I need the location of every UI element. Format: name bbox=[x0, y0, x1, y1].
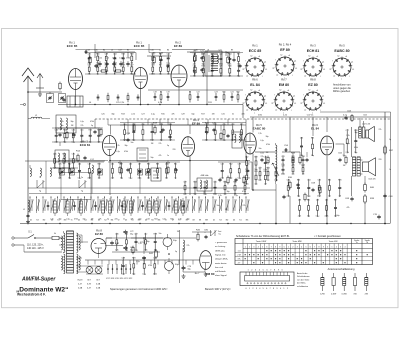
resistor R7 bbox=[194, 51, 198, 63]
wire U5 top bbox=[252, 117, 254, 133]
svg-text:C64: C64 bbox=[113, 54, 116, 56]
svg-text:M8: M8 bbox=[205, 220, 208, 222]
capacitor C24 bbox=[126, 133, 131, 142]
svg-text:5: 5 bbox=[262, 247, 263, 249]
resistor R21 bbox=[304, 193, 306, 202]
svg-text:C36: C36 bbox=[55, 129, 58, 131]
svg-text:7: 7 bbox=[314, 247, 315, 249]
wire speaker leads bbox=[360, 160, 362, 174]
svg-text:R52: R52 bbox=[96, 64, 99, 66]
svg-text:50p: 50p bbox=[267, 180, 270, 182]
svg-text:30p: 30p bbox=[130, 73, 133, 75]
svg-text:C29: C29 bbox=[181, 114, 184, 116]
svg-text:Rö 2, Rö 4: Rö 2, Rö 4 bbox=[279, 42, 292, 46]
svg-text:R58: R58 bbox=[130, 54, 133, 56]
svg-text:C41: C41 bbox=[151, 54, 154, 56]
wire crossers bbox=[108, 119, 228, 125]
capacitor C33 bbox=[282, 195, 285, 199]
resistor R10 bbox=[66, 131, 68, 140]
coil box L3 filter bbox=[56, 115, 76, 133]
switch S10 contact bbox=[84, 196, 88, 222]
wire bus y117 right bbox=[250, 116, 390, 118]
svg-text:30p: 30p bbox=[71, 121, 74, 123]
svg-text:5p: 5p bbox=[175, 251, 177, 253]
svg-text:EF 89: EF 89 bbox=[174, 44, 182, 48]
capacitor C2 trimmer bbox=[59, 94, 66, 103]
switch S5 contact bbox=[51, 196, 55, 222]
label row y114 bbox=[101, 114, 244, 116]
resistor R26 top right bbox=[384, 145, 394, 155]
wire EZ80 to caps bbox=[105, 238, 125, 246]
wire U4 top bbox=[189, 125, 191, 134]
svg-text:27k: 27k bbox=[81, 125, 84, 127]
tube pinout EZ 80 bbox=[301, 77, 326, 114]
svg-text:M5: M5 bbox=[246, 220, 249, 222]
capacitor C72b bbox=[123, 246, 133, 252]
svg-text:EL 84: EL 84 bbox=[311, 127, 319, 131]
svg-text:k2: k2 bbox=[280, 90, 282, 92]
svg-text:2,2k: 2,2k bbox=[258, 180, 261, 182]
svg-text:C14: C14 bbox=[307, 180, 310, 182]
svg-text:a1: a1 bbox=[316, 56, 318, 58]
junction node bbox=[27, 91, 29, 93]
svg-text:220: 220 bbox=[211, 75, 214, 77]
coil box L2 below U1a bbox=[67, 96, 83, 107]
svg-text:C55: C55 bbox=[151, 64, 154, 66]
power resistor RA4 bbox=[353, 273, 357, 296]
component cluster EABC bbox=[258, 167, 277, 182]
svg-text:C42: C42 bbox=[165, 163, 168, 165]
svg-text:C72: C72 bbox=[72, 153, 75, 155]
svg-text:C12: C12 bbox=[144, 234, 147, 236]
svg-text:C31: C31 bbox=[221, 114, 224, 116]
wire AF couplings bbox=[255, 152, 307, 224]
svg-text:Rö 5: Rö 5 bbox=[339, 43, 345, 47]
capacitor C32 bbox=[296, 183, 299, 187]
svg-text:10n: 10n bbox=[328, 196, 331, 198]
svg-text:R27: R27 bbox=[120, 163, 123, 165]
wire U3 cathode drop bbox=[109, 155, 111, 195]
dial lamp LP1 bbox=[86, 267, 93, 274]
component cluster OSC2 bbox=[218, 162, 252, 180]
svg-text:M2: M2 bbox=[43, 220, 46, 222]
svg-text:Tg: Tg bbox=[39, 191, 41, 193]
wire top verticals bbox=[95, 44, 179, 60]
wire bus B+ y104.5 bbox=[58, 104, 243, 106]
wire U6 to transformer bbox=[336, 144, 353, 157]
resistor R14 bbox=[153, 123, 158, 135]
svg-text:C27: C27 bbox=[141, 114, 144, 116]
svg-text:30p: 30p bbox=[125, 145, 128, 147]
wire value label bbox=[208, 102, 213, 104]
svg-text:10n: 10n bbox=[89, 142, 92, 144]
label scatter IF mid bbox=[116, 142, 175, 159]
capacitor C72a bbox=[123, 230, 133, 236]
svg-text:C28: C28 bbox=[105, 54, 108, 56]
resistor R11 bbox=[76, 151, 81, 163]
capacitor C53 bbox=[126, 168, 129, 172]
svg-text:2,2k: 2,2k bbox=[121, 274, 124, 276]
svg-text:C69: C69 bbox=[203, 181, 206, 183]
wire antenna to C1 bbox=[28, 92, 62, 94]
svg-text:R71: R71 bbox=[291, 156, 294, 158]
svg-text:R57: R57 bbox=[68, 163, 71, 165]
inductor L22 AM coil bbox=[79, 198, 82, 216]
svg-text:0,1μ: 0,1μ bbox=[260, 140, 264, 142]
svg-text:2: 2 bbox=[336, 247, 337, 249]
resistor R6 bbox=[153, 53, 157, 65]
fuse F1 bbox=[52, 233, 62, 240]
svg-text:470k: 470k bbox=[151, 73, 155, 75]
svg-text:7b: 7b bbox=[366, 242, 368, 244]
svg-text:470k: 470k bbox=[245, 184, 249, 186]
heater labels bbox=[106, 278, 133, 280]
svg-text:2,2k: 2,2k bbox=[116, 145, 119, 147]
svg-text:R8: R8 bbox=[189, 92, 191, 94]
trimmer C50 bbox=[60, 169, 65, 175]
svg-text:g1: g1 bbox=[294, 60, 296, 62]
antenna coil L1 bottom bbox=[23, 200, 30, 219]
wire value label bbox=[307, 115, 315, 117]
component cluster PSU2 bbox=[121, 257, 156, 276]
switch S18 contact bbox=[138, 196, 142, 222]
svg-text:470k: 470k bbox=[231, 140, 235, 142]
trimmer C51 bbox=[70, 169, 75, 175]
svg-text:C25 2,2k: C25 2,2k bbox=[116, 102, 125, 104]
svg-text:50μ: 50μ bbox=[130, 250, 133, 252]
svg-text:1n: 1n bbox=[114, 73, 116, 75]
IF transformer box F2 bbox=[55, 150, 69, 168]
tube U1b ECC85 bbox=[134, 41, 148, 89]
svg-text:C52: C52 bbox=[245, 156, 248, 158]
svg-text:6,3V: 6,3V bbox=[87, 284, 92, 286]
svg-text:1: 1 bbox=[245, 247, 246, 249]
junction node bbox=[75, 104, 77, 106]
wire dashed IF boundary y119 bbox=[95, 118, 390, 120]
tube pinout ECC 85 bbox=[243, 43, 268, 80]
volume pot P1 bbox=[272, 143, 279, 184]
svg-text:C57: C57 bbox=[138, 163, 141, 165]
component cluster LEFT LOW bbox=[55, 162, 104, 180]
svg-text:g1: g1 bbox=[264, 95, 266, 97]
svg-text:C15: C15 bbox=[94, 50, 97, 52]
power transformer TR1 left winding bbox=[61, 231, 65, 274]
coil L5 bbox=[40, 168, 41, 176]
svg-text:470k: 470k bbox=[80, 142, 84, 144]
svg-text:140 110...125 V: 140 110...125 V bbox=[27, 247, 44, 250]
svg-text:R74: R74 bbox=[254, 171, 257, 173]
svg-text:10n: 10n bbox=[159, 73, 162, 75]
wire value label bbox=[158, 102, 163, 104]
title Wechselstrom bbox=[17, 293, 46, 297]
svg-text:27k: 27k bbox=[165, 178, 168, 180]
antenna A1 bbox=[22, 68, 34, 224]
svg-text:C47: C47 bbox=[134, 234, 137, 236]
tube U4 EF89b bbox=[182, 118, 201, 156]
svg-text:R49: R49 bbox=[254, 156, 257, 158]
wire right verticals bbox=[352, 112, 386, 224]
svg-text:50p: 50p bbox=[139, 219, 142, 221]
component cluster IF1 bbox=[190, 53, 243, 78]
switch S22 contact bbox=[164, 196, 168, 222]
svg-text:0,1μ: 0,1μ bbox=[203, 194, 207, 196]
wire switch bus top bbox=[29, 193, 249, 195]
capacitor C43 switch bbox=[121, 202, 124, 211]
svg-text:50p: 50p bbox=[311, 155, 314, 157]
wire tweeter leads bbox=[360, 118, 364, 127]
svg-text:27k: 27k bbox=[261, 156, 264, 158]
svg-text:C32: C32 bbox=[274, 167, 277, 169]
wire U1b cathode drop bbox=[140, 89, 142, 105]
svg-text:M4: M4 bbox=[111, 220, 114, 222]
antenna A2 bbox=[36, 74, 44, 93]
switch S25 contact bbox=[186, 196, 190, 222]
svg-text:Ansicht der: Ansicht der bbox=[297, 272, 308, 275]
svg-text:0,3A: 0,3A bbox=[96, 287, 101, 290]
svg-text:C38: C38 bbox=[298, 200, 301, 202]
svg-text:a2: a2 bbox=[304, 109, 306, 111]
svg-text:7a: 7a bbox=[356, 242, 358, 244]
wire value label bbox=[258, 115, 262, 117]
label scatter EABC bbox=[258, 133, 270, 162]
svg-text:an Leitung: an Leitung bbox=[215, 245, 226, 248]
svg-text:C66: C66 bbox=[213, 181, 216, 183]
capacitor C21 bbox=[72, 133, 75, 137]
svg-text:R53: R53 bbox=[122, 54, 125, 56]
svg-text:g2: g2 bbox=[301, 68, 303, 70]
svg-text:10n: 10n bbox=[98, 178, 101, 180]
svg-text:0: 0 bbox=[327, 247, 328, 249]
svg-text:k2: k2 bbox=[281, 55, 283, 57]
svg-text:ECC 85: ECC 85 bbox=[67, 44, 78, 48]
coil L7 bbox=[90, 159, 94, 173]
resistor R19 bbox=[299, 156, 301, 165]
resistor R23 bbox=[345, 156, 347, 165]
svg-text:470k: 470k bbox=[153, 274, 157, 276]
svg-text:50p: 50p bbox=[307, 216, 310, 218]
wire IF top bbox=[187, 52, 240, 58]
trimmer C55 bbox=[146, 169, 151, 175]
svg-text:C26: C26 bbox=[193, 65, 196, 67]
svg-text:Antennenschaltleistung: Antennenschaltleistung bbox=[328, 267, 355, 271]
svg-text:C25: C25 bbox=[101, 114, 104, 116]
svg-text:R12: R12 bbox=[229, 163, 232, 165]
svg-text:C23: C23 bbox=[316, 200, 319, 202]
svg-text:2,2k: 2,2k bbox=[115, 250, 118, 252]
capacitor C46 switch bbox=[182, 202, 185, 211]
capacitor C1 trimmer bbox=[47, 94, 54, 103]
dial scale drawing bbox=[240, 269, 294, 290]
tube U2 EF89 bbox=[171, 41, 187, 88]
inductor L28 AM coil bbox=[155, 198, 158, 216]
svg-text:EL 84: EL 84 bbox=[250, 83, 260, 87]
svg-text:R13: R13 bbox=[121, 114, 124, 116]
electrolytic C73 bbox=[163, 234, 177, 250]
tube U7 EM80 bbox=[195, 251, 215, 276]
svg-text:der Mehr-: der Mehr- bbox=[297, 282, 306, 285]
svg-text:27k: 27k bbox=[243, 205, 246, 207]
junction node bbox=[252, 189, 254, 191]
heater pin K19 bbox=[116, 264, 118, 274]
svg-text:C19: C19 bbox=[143, 258, 146, 260]
wire mid-low bus bbox=[110, 161, 250, 166]
svg-text:R43: R43 bbox=[167, 64, 170, 66]
switch S8 contact bbox=[70, 196, 74, 222]
IF transformer box F1 bbox=[205, 51, 222, 76]
svg-text:a1: a1 bbox=[288, 55, 290, 57]
capacitor C31 bbox=[305, 158, 308, 162]
svg-text:T1: T1 bbox=[70, 220, 72, 222]
svg-text:10n: 10n bbox=[224, 194, 227, 196]
svg-text:C35: C35 bbox=[318, 180, 321, 182]
coil L4 bbox=[30, 165, 31, 176]
svg-text:a2: a2 bbox=[246, 75, 248, 77]
component cluster DET bbox=[281, 155, 305, 175]
svg-text:R17: R17 bbox=[201, 114, 204, 116]
svg-text:werte bezie-: werte bezie- bbox=[215, 262, 227, 265]
wire left mid verticals bbox=[46, 161, 204, 194]
svg-text:C14: C14 bbox=[210, 54, 213, 56]
svg-text:2,2k: 2,2k bbox=[258, 133, 261, 135]
wire EL84 anode bbox=[327, 112, 352, 144]
svg-text:C23: C23 bbox=[105, 64, 108, 66]
svg-text:R4: R4 bbox=[103, 50, 105, 52]
title AM/FM-Super bbox=[21, 277, 56, 283]
svg-text:470k: 470k bbox=[246, 178, 250, 180]
svg-text:0,1μ: 0,1μ bbox=[142, 274, 146, 276]
svg-text:C19: C19 bbox=[166, 92, 169, 94]
wire top cluster bus bbox=[95, 52, 135, 58]
svg-text:U5: U5 bbox=[125, 220, 127, 222]
svg-text:C44: C44 bbox=[78, 163, 81, 165]
bus hangers bbox=[97, 93, 140, 102]
svg-text:k2: k2 bbox=[338, 56, 340, 58]
inductor L26 AM coil bbox=[129, 198, 132, 216]
wire verticals mid bbox=[60, 105, 313, 161]
svg-text:6: 6 bbox=[266, 247, 267, 249]
svg-text:a1: a1 bbox=[287, 90, 289, 92]
svg-text:0,1μ: 0,1μ bbox=[66, 219, 70, 221]
svg-text:C29: C29 bbox=[113, 64, 116, 66]
svg-text:30p: 30p bbox=[147, 241, 150, 243]
resistor R1 bbox=[59, 82, 61, 91]
svg-text:R78: R78 bbox=[154, 234, 157, 236]
svg-text:5p: 5p bbox=[107, 219, 109, 221]
switch S15 contact bbox=[117, 196, 121, 222]
svg-text:R10: R10 bbox=[222, 92, 225, 94]
svg-text:R12: R12 bbox=[236, 92, 239, 94]
screen box around AM coils bbox=[61, 173, 91, 200]
component cluster MIX bbox=[52, 128, 103, 144]
wire value label bbox=[283, 115, 288, 117]
svg-text:47k: 47k bbox=[228, 75, 231, 77]
svg-text:EZ 80: EZ 80 bbox=[308, 83, 318, 87]
svg-text:50p: 50p bbox=[151, 157, 154, 159]
svg-text:a2: a2 bbox=[246, 109, 248, 111]
tube U3 ECH81 bbox=[80, 136, 117, 156]
svg-text:U8: U8 bbox=[192, 220, 194, 222]
wire value label bbox=[343, 115, 348, 117]
switch S13 contact bbox=[104, 196, 108, 222]
switch S16 contact bbox=[125, 196, 129, 222]
svg-text:k2: k2 bbox=[309, 56, 311, 58]
wire bus right drop bbox=[242, 105, 244, 119]
tube U1a ECC85 bbox=[67, 41, 83, 90]
svg-text:47k: 47k bbox=[347, 207, 350, 209]
svg-text:0,1μ: 0,1μ bbox=[346, 143, 350, 145]
svg-text:2,2k: 2,2k bbox=[111, 178, 114, 180]
trimmer C52 bbox=[98, 169, 103, 175]
capacitor C60 reservoir bbox=[110, 241, 120, 246]
capacitor C29 bbox=[260, 153, 265, 163]
svg-text:g2: g2 bbox=[330, 68, 332, 70]
svg-text:0,1μ: 0,1μ bbox=[151, 114, 155, 116]
svg-text:5: 5 bbox=[305, 247, 306, 249]
junction node bbox=[168, 253, 170, 255]
svg-text:Schaltebene 7b von der Röhrenf: Schaltebene 7b von der Röhrenfassung ECH… bbox=[236, 235, 290, 238]
svg-text:ECC 85: ECC 85 bbox=[249, 49, 262, 53]
capacitor C3 bbox=[62, 98, 65, 102]
svg-text:R47: R47 bbox=[159, 64, 162, 66]
svg-text:C27: C27 bbox=[153, 258, 156, 260]
switch S11 contact bbox=[91, 196, 95, 222]
wire U4 cathode drop bbox=[189, 156, 191, 195]
svg-text:10n: 10n bbox=[160, 140, 163, 142]
svg-text:27k: 27k bbox=[159, 143, 162, 145]
svg-text:R16: R16 bbox=[297, 180, 300, 182]
table header text bbox=[236, 235, 341, 238]
svg-text:0,1μ: 0,1μ bbox=[237, 178, 241, 180]
tube U5 EABC80 bbox=[244, 123, 266, 154]
svg-text:2,2k: 2,2k bbox=[138, 243, 141, 245]
capacitor C17 bbox=[200, 68, 203, 72]
svg-text:R39: R39 bbox=[301, 166, 304, 168]
switch S14 contact bbox=[111, 196, 115, 222]
label 275V bbox=[140, 242, 146, 244]
switch S20 wave band bbox=[37, 177, 45, 193]
svg-text:R60: R60 bbox=[96, 54, 99, 56]
resistor R22 bbox=[319, 186, 321, 195]
switch S2 contact bbox=[30, 196, 34, 222]
capacitor C14 bbox=[159, 53, 164, 63]
svg-text:C25: C25 bbox=[58, 163, 61, 165]
svg-text:2,2k: 2,2k bbox=[286, 196, 289, 198]
svg-text:R41: R41 bbox=[159, 54, 162, 56]
svg-text:470k: 470k bbox=[87, 178, 91, 180]
svg-text:5n: 5n bbox=[232, 114, 234, 116]
capacitor C4 bbox=[94, 64, 97, 68]
svg-text:0,1μ: 0,1μ bbox=[116, 151, 120, 153]
wire U6 cathode drop bbox=[326, 156, 328, 224]
svg-text:• = Kontakt geschlossen: • = Kontakt geschlossen bbox=[314, 235, 341, 238]
switch S28 contact bbox=[205, 196, 209, 222]
wire EM80 left vertical bbox=[179, 230, 181, 283]
wire mid horizontals bbox=[58, 125, 352, 224]
main speaker LS1 bbox=[363, 158, 376, 181]
coil L2 antenna coupling bbox=[28, 115, 50, 119]
svg-text:R79: R79 bbox=[122, 64, 125, 66]
resistor R16 bbox=[220, 132, 222, 141]
capacitor C26 bbox=[168, 135, 171, 139]
svg-text:K6: K6 bbox=[151, 220, 153, 222]
capacitor C41 switch bbox=[73, 202, 76, 211]
svg-text:R36: R36 bbox=[233, 181, 236, 183]
capacitor C6 bbox=[98, 58, 103, 67]
switch S33 contact bbox=[239, 196, 243, 222]
svg-text:0,1μ: 0,1μ bbox=[134, 250, 138, 252]
wire y112 right bbox=[320, 111, 391, 113]
svg-text:470k: 470k bbox=[325, 216, 329, 218]
